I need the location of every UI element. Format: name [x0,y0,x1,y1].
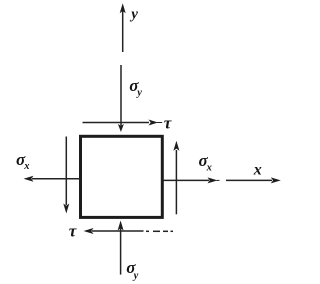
svg-text:x: x [23,161,29,172]
svg-text:y: y [135,87,142,98]
svg-text:τ: τ [69,221,77,240]
svg-text:x: x [206,162,212,173]
svg-text:y: y [132,270,139,281]
svg-text:τ: τ [164,113,172,132]
svg-text:y: y [129,7,138,23]
svg-text:x: x [253,161,262,178]
